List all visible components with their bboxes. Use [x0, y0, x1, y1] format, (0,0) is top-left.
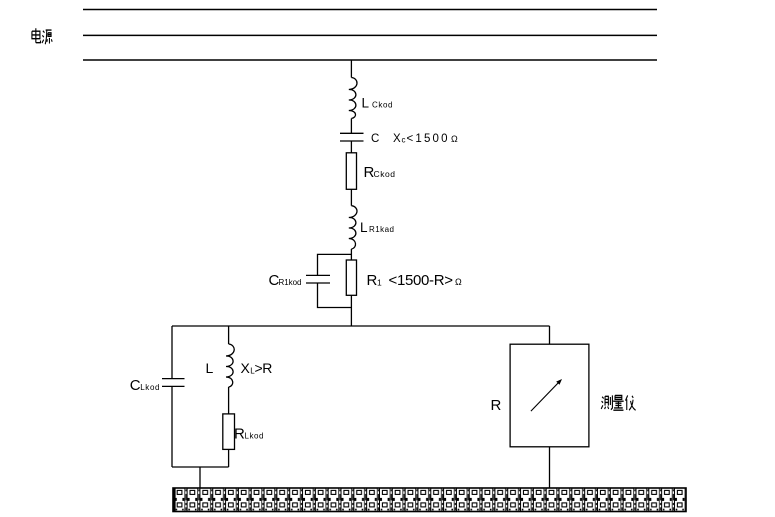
label C_R1kod [269, 272, 302, 289]
label L_Ckod [362, 95, 393, 110]
svg-text:R1kad: R1kad [369, 225, 394, 234]
wire [350, 295, 352, 326]
label L_R1kad [360, 220, 394, 235]
capacitor C bottom plate [340, 140, 364, 142]
svg-text:L: L [362, 95, 370, 110]
wire [350, 119, 352, 134]
right branch wire [549, 326, 551, 344]
wire to ground [549, 447, 551, 488]
resistor R_Ckod box [346, 153, 356, 190]
svg-text:L: L [360, 220, 368, 235]
svg-text:Ckod: Ckod [372, 101, 393, 110]
label R_Lkod [234, 425, 264, 442]
svg-text:1: 1 [377, 278, 382, 288]
capacitor C top plate [340, 132, 364, 134]
ground bar left edge [173, 488, 176, 512]
svg-text:R1kod: R1kod [279, 278, 302, 287]
inductor L_Ckod coil [349, 78, 357, 119]
svg-text:R: R [262, 360, 272, 376]
wire [350, 189, 352, 205]
svg-text:L: L [206, 360, 214, 376]
capacitor C_Lkod bottom plate [162, 385, 185, 387]
parallel section top wire [318, 254, 352, 275]
label R_Ckod [364, 164, 396, 181]
char yi [626, 395, 636, 410]
meter box U1 [510, 344, 589, 447]
wire [350, 141, 352, 153]
wire [228, 449, 230, 467]
bus wire [172, 325, 550, 327]
svg-text:Ω: Ω [451, 134, 458, 144]
wire from power line down [350, 60, 352, 78]
ground bar [173, 488, 686, 512]
bottom wire [172, 466, 229, 468]
left branch wire [171, 326, 173, 379]
svg-text:Lkod: Lkod [140, 383, 159, 392]
svg-text:X: X [241, 360, 251, 376]
power line 3 [83, 59, 657, 61]
label R1 (1500-R) ohm [367, 272, 463, 289]
svg-text:Ckod: Ckod [374, 169, 396, 179]
svg-text:C: C [130, 377, 141, 394]
svg-text:<1500: <1500 [407, 133, 448, 145]
inductor L_R1kad coil [349, 206, 357, 249]
power line 2 [83, 34, 657, 36]
resistor R1 box [346, 260, 356, 295]
meter arrowhead [556, 379, 562, 385]
capacitor C_Lkod top plate [162, 378, 185, 380]
wire [350, 249, 352, 260]
char ce [601, 395, 612, 409]
char dian [32, 28, 41, 43]
wire [171, 386, 173, 467]
svg-text:<1500-R>: <1500-R> [389, 272, 454, 289]
svg-text:Ω: Ω [455, 277, 462, 287]
svg-text:c: c [402, 136, 406, 145]
svg-text:Lkod: Lkod [245, 432, 264, 441]
capacitor C_R1kod bottom plate [306, 282, 330, 284]
wire [318, 283, 352, 308]
meter needle arrow [531, 381, 560, 411]
svg-text:R: R [234, 425, 245, 442]
wire [228, 387, 230, 414]
power line 1 [83, 9, 657, 11]
label C_Lkod [130, 377, 160, 394]
inductor L coil [226, 344, 234, 387]
capacitor C_R1kod top plate [306, 274, 330, 276]
label C Xc<1500 ohm [371, 133, 458, 145]
char yuan [42, 30, 52, 44]
svg-text:C: C [371, 133, 379, 145]
ground stub wire [199, 467, 201, 488]
resistor R_Lkod box [223, 414, 235, 450]
label dian-yuan (power) CJK [32, 28, 52, 44]
middle branch wire [228, 326, 230, 344]
svg-text:X: X [393, 133, 401, 145]
label XL>R [241, 360, 273, 376]
svg-text:R: R [491, 397, 502, 414]
svg-text:R: R [367, 272, 378, 289]
label ce-liang-yi (meter) CJK [601, 395, 635, 410]
char liang [613, 395, 623, 410]
